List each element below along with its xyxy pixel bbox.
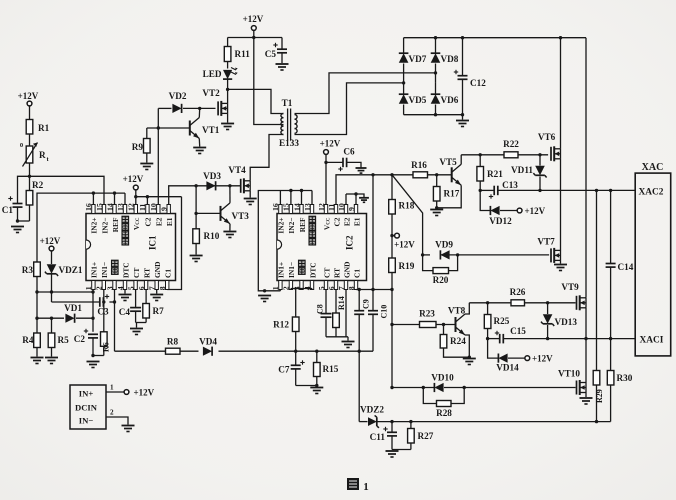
wire R3 node to IC1 pins 16/14 bbox=[37, 193, 125, 262]
+12V terminal IC1 Vcc bbox=[123, 174, 144, 197]
svg-text:10: 10 bbox=[337, 203, 346, 211]
svg-text:R18: R18 bbox=[399, 201, 415, 211]
DCIN box bbox=[70, 385, 106, 429]
svg-text:E1: E1 bbox=[352, 217, 361, 226]
svg-text:VT9: VT9 bbox=[561, 282, 579, 292]
bus IC1 pins 12-11 to pin8 loop bbox=[134, 195, 181, 198]
wire T1 secondary top to bridge bbox=[295, 73, 436, 114]
svg-text:VDZ1: VDZ1 bbox=[59, 265, 83, 275]
svg-text:R10: R10 bbox=[204, 231, 220, 241]
svg-text:R28: R28 bbox=[436, 408, 452, 418]
svg-text:R19: R19 bbox=[399, 261, 415, 271]
junction pin14 riser bbox=[113, 191, 116, 194]
svg-text:IC1: IC1 bbox=[148, 235, 158, 250]
wire VT9 source bbox=[585, 308, 587, 339]
svg-text:R1: R1 bbox=[38, 123, 50, 133]
resistor R30 bbox=[607, 339, 632, 422]
ground under VT8 bbox=[463, 359, 476, 365]
wire C8/R14/pin7 join bbox=[326, 337, 348, 341]
transistor VT3 bbox=[221, 186, 250, 231]
riser IC1 pin14 bbox=[114, 193, 116, 204]
wire pin1 col down bbox=[91, 292, 94, 332]
wire IC2 wrap (pins 15/14/1) bbox=[258, 189, 312, 293]
svg-text:REF: REF bbox=[111, 217, 120, 232]
wire VT10 drain bbox=[585, 339, 587, 383]
svg-text:1: 1 bbox=[271, 286, 280, 290]
svg-text:R9: R9 bbox=[132, 142, 144, 152]
svg-text:R20: R20 bbox=[433, 275, 449, 285]
ground under VT1 bbox=[193, 148, 206, 154]
svg-text:C2: C2 bbox=[332, 217, 341, 226]
svg-text:R15: R15 bbox=[323, 364, 339, 374]
svg-text:13: 13 bbox=[116, 203, 125, 211]
ground under C11 bbox=[386, 451, 399, 457]
+12V terminal DCIN bbox=[124, 388, 155, 398]
wire R26 line bbox=[469, 301, 575, 304]
svg-text:+12V: +12V bbox=[18, 91, 39, 101]
svg-text:12: 12 bbox=[127, 203, 136, 211]
svg-text:C11: C11 bbox=[370, 432, 386, 442]
junction pin8 loop top bbox=[371, 173, 374, 176]
transistor VT1 bbox=[190, 108, 220, 146]
ground under VT7 bbox=[554, 265, 567, 271]
wire node A to IC1 pin15 bbox=[30, 176, 105, 204]
zener VD13 bbox=[541, 303, 577, 339]
capacitor C11 bbox=[370, 422, 397, 450]
diode VD12 branch bbox=[480, 190, 517, 226]
ground IC1 pin7 bbox=[150, 290, 163, 301]
junction pin16 riser bbox=[92, 191, 95, 194]
DCIN pin2 wire bbox=[106, 409, 128, 425]
diode VD9 bbox=[435, 240, 453, 260]
svg-text:1: 1 bbox=[363, 481, 369, 493]
wire C7/R15 join bbox=[296, 384, 319, 387]
resistor R19 bbox=[389, 236, 415, 290]
bridge top rail bbox=[404, 36, 586, 39]
transistor VT7 (MOSFET) bbox=[537, 237, 560, 264]
svg-text:C1: C1 bbox=[352, 269, 361, 278]
wire R3 col down bbox=[36, 292, 38, 333]
resistor R21 bbox=[477, 155, 503, 191]
svg-text:VT5: VT5 bbox=[439, 157, 457, 167]
diode VD5 bbox=[399, 83, 427, 115]
zener VDZ2 bbox=[359, 405, 384, 428]
wire Rt to node A bbox=[29, 163, 31, 176]
svg-text:R12: R12 bbox=[273, 320, 289, 330]
svg-text:+12V: +12V bbox=[525, 206, 546, 216]
resistor R6 bbox=[101, 302, 111, 356]
wire VD2 line bbox=[158, 107, 215, 109]
+12V terminal VD14 bbox=[525, 354, 553, 364]
ground under C2 bbox=[87, 362, 100, 368]
svg-text:11: 11 bbox=[138, 204, 147, 211]
wire DTC line R8/VD4 bbox=[115, 350, 374, 352]
resistor R29 bbox=[593, 371, 604, 404]
wire +12V to T1 center tap bbox=[254, 38, 284, 125]
resistor R15 bbox=[314, 351, 339, 385]
svg-text:+12V: +12V bbox=[243, 14, 264, 24]
svg-text:IN1+: IN1+ bbox=[277, 262, 286, 278]
ground IC2 pin1 wire bbox=[258, 296, 271, 302]
node A junction bbox=[28, 175, 31, 178]
svg-text:VD6: VD6 bbox=[441, 95, 459, 105]
riser IC2 pin14 bbox=[301, 191, 303, 205]
svg-text:R22: R22 bbox=[503, 139, 519, 149]
transistor VT5 bbox=[435, 155, 461, 210]
svg-text:IN2−: IN2− bbox=[287, 218, 296, 234]
riser IC1 pin12 bbox=[135, 197, 137, 205]
svg-text:R8: R8 bbox=[167, 337, 179, 347]
resistor R3 bbox=[22, 262, 41, 292]
wire C11/R27 join bbox=[392, 449, 411, 451]
diode VD14 branch bbox=[488, 339, 525, 373]
wire VT3 base bbox=[194, 212, 220, 215]
svg-text:DCIN: DCIN bbox=[75, 403, 98, 413]
svg-text:VD5: VD5 bbox=[409, 95, 427, 105]
riser IC1 pin11 bbox=[146, 197, 148, 205]
svg-text:7: 7 bbox=[337, 286, 346, 290]
ground under R4 bbox=[31, 358, 44, 364]
svg-text:VT6: VT6 bbox=[538, 132, 556, 142]
svg-text:VDZ2: VDZ2 bbox=[360, 405, 384, 415]
resistor R28 loop bbox=[423, 388, 464, 419]
transistor VT9 (MOSFET) bbox=[561, 282, 586, 310]
svg-text:R3: R3 bbox=[22, 265, 34, 275]
resistor R27 bbox=[408, 422, 434, 450]
wire T1 secondary bottom to bridge bbox=[295, 83, 404, 135]
svg-text:9: 9 bbox=[347, 207, 356, 211]
capacitor C1 bbox=[2, 196, 23, 221]
svg-text:C14: C14 bbox=[618, 262, 634, 272]
svg-text:2: 2 bbox=[95, 286, 104, 290]
wire XAC2 line bbox=[479, 189, 636, 192]
resistor R4 bbox=[22, 333, 40, 357]
transistor VT2 (MOSFET) bbox=[202, 88, 227, 123]
wire R29 column bbox=[596, 190, 598, 421]
svg-text:IC2: IC2 bbox=[345, 235, 355, 250]
svg-text:+12V: +12V bbox=[532, 354, 553, 364]
resistor R8 bbox=[166, 337, 181, 355]
svg-text:+12V: +12V bbox=[123, 174, 144, 184]
svg-text:R5: R5 bbox=[58, 335, 70, 345]
svg-text:R4: R4 bbox=[22, 335, 34, 345]
wire XAC1 line bbox=[486, 337, 635, 340]
ground under VT4 bbox=[244, 199, 257, 205]
svg-text:REF: REF bbox=[298, 217, 307, 232]
connector XAC box bbox=[635, 162, 671, 356]
svg-text:VT10: VT10 bbox=[558, 369, 580, 379]
svg-text:XAC2: XAC2 bbox=[639, 188, 664, 198]
wire VT6 drain bbox=[560, 38, 562, 149]
wire IC1 pin1 to R3/VDZ1 bbox=[35, 290, 93, 294]
svg-text:1: 1 bbox=[110, 384, 114, 392]
riser IC2 pin13 bbox=[311, 191, 313, 205]
capacitor C12 bbox=[454, 38, 486, 117]
resistor R23 bbox=[419, 309, 436, 328]
junction R17 top bbox=[435, 173, 438, 176]
resistor R11 bbox=[224, 38, 250, 69]
svg-text:CT: CT bbox=[132, 268, 141, 278]
wire VT5 collector line bbox=[461, 154, 548, 156]
ground under R17/VT5 bbox=[430, 210, 443, 216]
wire VT10 source bbox=[585, 393, 587, 398]
svg-text:VT1: VT1 bbox=[202, 125, 220, 135]
wire LED node to T1 primary top bbox=[228, 89, 284, 113]
svg-text:8: 8 bbox=[347, 286, 356, 290]
wire R23 line bbox=[392, 324, 456, 326]
wire IC2 pin7 down bbox=[345, 290, 347, 337]
diode VD6 bbox=[431, 83, 459, 115]
svg-text:VT4: VT4 bbox=[228, 165, 246, 175]
svg-text:IN1−: IN1− bbox=[100, 262, 109, 278]
svg-text:4: 4 bbox=[116, 286, 125, 290]
svg-text:VT8: VT8 bbox=[448, 306, 466, 316]
diode VD2 bbox=[169, 91, 187, 113]
svg-text:C1: C1 bbox=[2, 205, 14, 215]
svg-text:T1: T1 bbox=[282, 98, 293, 108]
svg-text:10: 10 bbox=[149, 203, 158, 211]
wire VT6 source to VT7 drain bbox=[560, 159, 562, 251]
junction VT3 collector bbox=[228, 184, 231, 187]
+12V rail bbox=[228, 36, 282, 39]
zener VD11 bbox=[511, 153, 547, 190]
capacitor C14 bbox=[606, 190, 634, 338]
resistor R9 bbox=[132, 128, 150, 163]
svg-text:R25: R25 bbox=[494, 316, 510, 326]
capacitor C8 bbox=[316, 290, 332, 337]
junction R6 top bbox=[102, 300, 105, 303]
svg-text:1: 1 bbox=[84, 286, 93, 290]
ground under VT10 bbox=[580, 398, 593, 404]
svg-text:9: 9 bbox=[160, 207, 169, 211]
svg-text:C6: C6 bbox=[343, 147, 355, 157]
ground DCIN bbox=[122, 426, 135, 432]
svg-text:C2: C2 bbox=[144, 217, 153, 226]
resistor R14 bbox=[333, 290, 346, 337]
svg-text:VT2: VT2 bbox=[202, 88, 220, 98]
capacitor C13 bbox=[489, 180, 519, 199]
resistor R24 bbox=[440, 325, 469, 358]
svg-text:R16: R16 bbox=[411, 160, 427, 170]
+12V terminal IC2 Vcc bbox=[320, 139, 341, 205]
svg-text:IN+: IN+ bbox=[79, 389, 94, 399]
+12V terminal VDZ1 bbox=[40, 236, 61, 264]
svg-text:12: 12 bbox=[317, 203, 326, 211]
svg-text:RT: RT bbox=[142, 268, 151, 278]
wire VT1 base bbox=[147, 126, 190, 129]
junction VT1 collector bbox=[198, 107, 201, 110]
junction VD10 line left bbox=[390, 386, 393, 389]
ground under C1 bbox=[11, 227, 24, 233]
wire VD10 line to VT10 gate bbox=[392, 386, 576, 389]
svg-text:R2: R2 bbox=[32, 180, 44, 190]
svg-text:LED: LED bbox=[203, 69, 222, 79]
wire IC2 pin11 to R16 line bbox=[336, 175, 427, 205]
junction +12V stub bbox=[390, 234, 394, 237]
svg-text:E1: E1 bbox=[165, 217, 174, 226]
capacitor C9 bbox=[354, 288, 370, 351]
svg-text:R29: R29 bbox=[595, 389, 604, 403]
wire IC2 pins2-4 jumper bbox=[291, 289, 312, 290]
junction LED/VT2 drain bbox=[226, 88, 229, 91]
junction R24 top bbox=[442, 323, 445, 326]
ground under C5 bbox=[276, 64, 289, 70]
svg-text:2: 2 bbox=[110, 409, 114, 417]
ground under R10 bbox=[190, 256, 203, 262]
svg-text:E133: E133 bbox=[279, 138, 299, 148]
junction secondary bottom bbox=[402, 81, 405, 84]
capacitor C5 bbox=[265, 38, 287, 64]
capacitor C6 bbox=[326, 147, 361, 172]
svg-text:15: 15 bbox=[282, 203, 291, 211]
DCIN pin1 wire bbox=[106, 384, 124, 393]
ground under R5 bbox=[45, 358, 58, 364]
IC1 pin8 loop wire bbox=[167, 197, 181, 290]
svg-text:C2: C2 bbox=[74, 334, 86, 344]
junction secondary top bbox=[434, 71, 437, 74]
svg-text:CT: CT bbox=[322, 268, 331, 278]
diode VD7 bbox=[399, 38, 427, 83]
op-amp IC1 (PWM controller) bbox=[84, 203, 175, 290]
svg-text:VD1: VD1 bbox=[64, 303, 82, 313]
junction R15 top bbox=[315, 350, 318, 353]
resistor R22 bbox=[503, 139, 519, 158]
wire VD2/VT1 to IC1 pin10 bbox=[157, 108, 159, 204]
svg-text:VD9: VD9 bbox=[435, 240, 453, 250]
riser IC2 pin15 bbox=[290, 191, 292, 205]
svg-text:XACI: XACI bbox=[640, 336, 664, 346]
svg-text:6: 6 bbox=[137, 286, 146, 290]
svg-text:R6: R6 bbox=[102, 342, 111, 352]
svg-text:IN2−: IN2− bbox=[100, 218, 109, 234]
svg-text:14: 14 bbox=[292, 203, 301, 211]
svg-text:IN2+: IN2+ bbox=[277, 218, 286, 234]
svg-text:6: 6 bbox=[327, 286, 336, 290]
riser IC1 pin2 bbox=[103, 290, 105, 303]
wire node A to C1 bbox=[18, 176, 30, 203]
svg-text:5: 5 bbox=[317, 286, 326, 290]
figure caption 图1 bbox=[347, 478, 369, 493]
ground under VT2 bbox=[221, 124, 234, 130]
svg-text:R24: R24 bbox=[450, 336, 466, 346]
diagonal wire R18 to VD9 bbox=[392, 175, 423, 255]
resistor R25 bbox=[484, 303, 509, 339]
transistor VT4 (MOSFET) bbox=[228, 165, 250, 198]
svg-text:+12V: +12V bbox=[40, 236, 61, 246]
svg-text:C1: C1 bbox=[164, 269, 173, 278]
svg-text:C12: C12 bbox=[470, 78, 486, 88]
svg-text:0: 0 bbox=[20, 142, 23, 149]
svg-text:VD2: VD2 bbox=[169, 91, 187, 101]
ground under C7/R15 bbox=[310, 388, 323, 394]
svg-text:VD7: VD7 bbox=[409, 54, 427, 64]
transistor VT6 (MOSFET) bbox=[538, 132, 561, 161]
svg-text:+12V: +12V bbox=[394, 240, 415, 250]
svg-text:VD11: VD11 bbox=[511, 165, 533, 175]
junction C2/R6 bottom bbox=[91, 354, 104, 357]
svg-text:C13: C13 bbox=[502, 180, 518, 190]
svg-text:R30: R30 bbox=[617, 373, 633, 383]
wire R1 to Rt bbox=[29, 134, 31, 146]
transistor VT10 (MOSFET) bbox=[558, 369, 586, 396]
svg-text:3: 3 bbox=[105, 286, 114, 290]
bridge bottom rail bbox=[404, 113, 463, 116]
svg-text:C15: C15 bbox=[510, 326, 526, 336]
ground under VT3 bbox=[223, 232, 236, 238]
svg-text:DTC: DTC bbox=[308, 262, 317, 278]
wire T1 primary bottom to VT4 drain bbox=[250, 135, 283, 178]
junction VDZ2 branch bbox=[358, 350, 361, 353]
svg-text:C7: C7 bbox=[278, 365, 290, 375]
svg-text:5: 5 bbox=[126, 286, 135, 290]
diode VD8 bbox=[431, 38, 459, 83]
riser IC1 pin3 / wire to R8 bbox=[113, 290, 116, 352]
svg-text:GND: GND bbox=[342, 262, 351, 278]
resistor R17 bbox=[433, 175, 459, 208]
svg-text:16: 16 bbox=[84, 203, 93, 211]
+12V terminal top-left bbox=[18, 91, 39, 120]
junction R12 bottom bbox=[294, 350, 297, 353]
svg-text:VD12: VD12 bbox=[489, 216, 512, 226]
wire IC2 pin8 loop bbox=[356, 175, 394, 351]
bottom rail XAC2 return bbox=[377, 420, 611, 423]
svg-text:DTC: DTC bbox=[121, 262, 130, 278]
capacitor C15 bbox=[495, 326, 527, 343]
wire VDZ2 branch bbox=[358, 351, 360, 421]
diode VD1 bbox=[35, 303, 93, 323]
junction R2/C1 bottom bbox=[16, 219, 30, 222]
resistor R26 bbox=[510, 287, 526, 306]
svg-text:13: 13 bbox=[303, 203, 312, 211]
resistor R5 bbox=[48, 317, 69, 357]
svg-text:16: 16 bbox=[271, 203, 280, 211]
zener VDZ1 bbox=[45, 264, 83, 292]
svg-text:IN1+: IN1+ bbox=[90, 262, 99, 278]
svg-text:R26: R26 bbox=[510, 287, 526, 297]
+12V terminal R18/R19 bbox=[394, 233, 415, 249]
svg-text:E2: E2 bbox=[155, 217, 164, 226]
ground IC1 pin4 bbox=[119, 290, 132, 301]
wire C3 feedback bbox=[52, 292, 115, 302]
svg-text:XAC: XAC bbox=[642, 162, 664, 173]
transformer T1 bbox=[279, 98, 299, 148]
svg-text:IN−: IN− bbox=[79, 416, 94, 426]
junction top rail corner bbox=[585, 38, 587, 298]
svg-text:R27: R27 bbox=[418, 431, 434, 441]
+12V terminal VD12 bbox=[517, 206, 545, 216]
resistor R7 bbox=[143, 290, 164, 323]
svg-text:IN1−: IN1− bbox=[287, 262, 296, 278]
svg-text:VT7: VT7 bbox=[537, 237, 555, 247]
svg-text:VD8: VD8 bbox=[441, 54, 459, 64]
svg-text:R: R bbox=[39, 150, 46, 160]
svg-text:VD14: VD14 bbox=[496, 363, 519, 373]
svg-text:GND: GND bbox=[153, 262, 162, 278]
resistor R16 bbox=[411, 160, 427, 178]
resistor R2 bbox=[26, 176, 43, 221]
junction pin1 col bbox=[91, 290, 94, 293]
ground under C4/R7 bbox=[130, 329, 143, 335]
svg-text:VD4: VD4 bbox=[199, 337, 217, 347]
capacitor C7 bbox=[278, 351, 304, 385]
svg-text:R7: R7 bbox=[153, 306, 165, 316]
ground under C6 bbox=[356, 168, 367, 173]
riser IC1 pin13 bbox=[124, 193, 126, 204]
riser IC2 pin16 bbox=[279, 191, 281, 205]
svg-text:8: 8 bbox=[158, 286, 167, 290]
LED bbox=[203, 68, 238, 90]
svg-text:C10: C10 bbox=[380, 305, 389, 319]
